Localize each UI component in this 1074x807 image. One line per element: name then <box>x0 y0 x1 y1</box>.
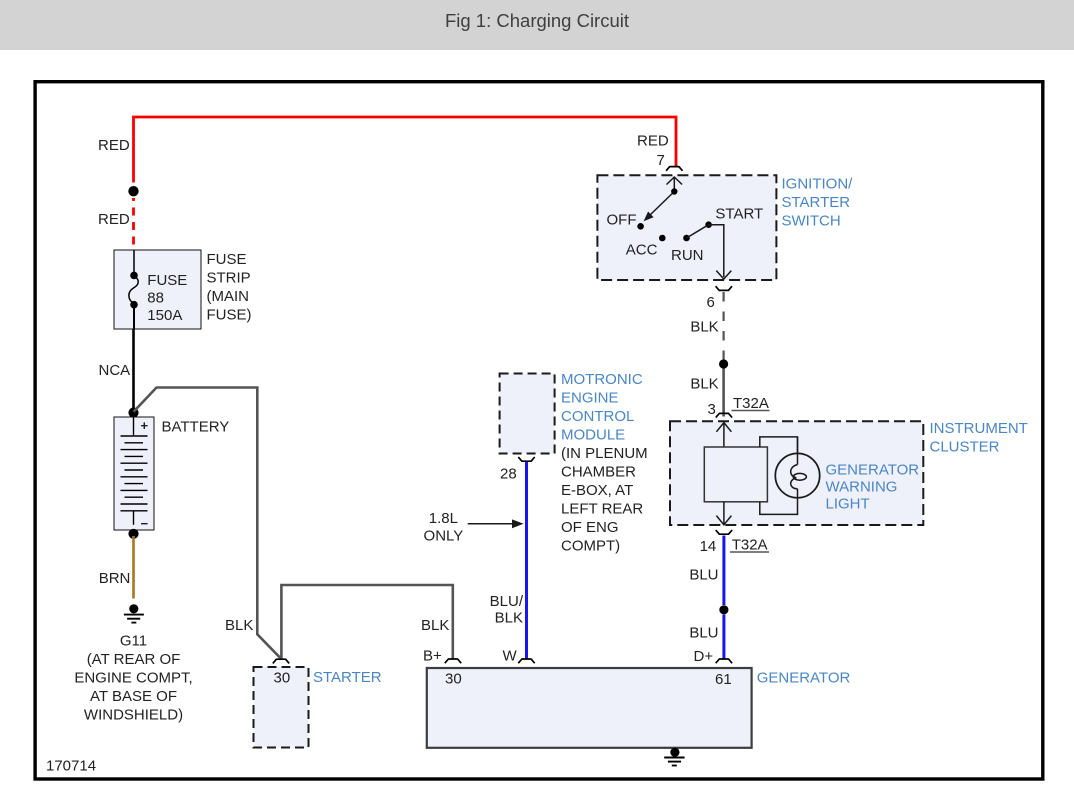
label IGNITION/STARTER SWITCH <box>782 176 854 230</box>
svg-text:G11: G11 <box>120 633 147 650</box>
svg-text:7: 7 <box>657 152 665 169</box>
svg-text:MODULE: MODULE <box>561 427 625 444</box>
fuse F88 box <box>114 250 201 329</box>
wire BLU/BLK: motronic to generator W <box>525 462 528 659</box>
svg-text:D+: D+ <box>694 648 714 665</box>
connector D+ arc <box>716 659 732 663</box>
svg-text:170714: 170714 <box>46 758 96 775</box>
ground G11 <box>124 604 144 622</box>
wire BLK dashed: ignition to splice <box>722 292 724 360</box>
svg-text:SWITCH: SWITCH <box>782 213 841 230</box>
svg-text:CHAMBER: CHAMBER <box>561 464 636 481</box>
svg-text:STARTER: STARTER <box>313 669 382 686</box>
contact OFF <box>637 223 644 230</box>
instrument cluster box <box>670 421 923 525</box>
svg-text:B+: B+ <box>423 648 442 665</box>
svg-text:ENGINE COMPT,: ENGINE COMPT, <box>74 670 192 687</box>
wire NCA: fuse to battery <box>132 329 135 408</box>
wire START to output arrow <box>709 225 732 279</box>
svg-text:BLU/: BLU/ <box>490 593 524 610</box>
svg-text:150A: 150A <box>147 307 182 324</box>
note arrow to BLU/BLK wire <box>468 519 524 528</box>
svg-text:BLK: BLK <box>690 376 718 393</box>
svg-text:W: W <box>503 648 518 665</box>
label FUSE STRIP (MAIN FUSE) <box>207 251 252 324</box>
svg-text:FUSE: FUSE <box>147 272 187 289</box>
connector 3 arc <box>716 413 732 417</box>
battery BT1 <box>114 417 154 531</box>
fuse F88 symbol <box>129 250 138 329</box>
svg-text:OFF: OFF <box>607 212 637 229</box>
svg-text:(AT REAR OF: (AT REAR OF <box>87 651 181 668</box>
lamp: generator warning light <box>775 437 819 498</box>
switch wiper arrow up <box>667 177 683 192</box>
regulator block U1 <box>704 447 767 502</box>
svg-text:BLK: BLK <box>421 617 449 634</box>
svg-text:NCA: NCA <box>99 362 131 379</box>
svg-text:CLUSTER: CLUSTER <box>930 439 1000 456</box>
svg-text:WINDSHIELD): WINDSHIELD) <box>84 707 183 724</box>
svg-text:+: + <box>141 418 149 433</box>
ignition/starter switch box <box>597 175 776 280</box>
svg-text:CONTROL: CONTROL <box>561 408 634 425</box>
node: BLK splice <box>719 359 728 368</box>
connector W arc <box>518 659 534 663</box>
svg-text:BRN: BRN <box>99 570 131 587</box>
svg-text:OF ENG: OF ENG <box>561 519 619 536</box>
svg-text:BLU: BLU <box>689 625 718 642</box>
svg-text:28: 28 <box>500 466 517 483</box>
svg-text:LIGHT: LIGHT <box>826 496 870 513</box>
svg-text:IGNITION/: IGNITION/ <box>782 176 854 193</box>
wire BRN: battery to ground <box>132 536 135 599</box>
wire BLU: splice to generator D+ <box>722 615 725 659</box>
svg-text:RED: RED <box>637 133 669 150</box>
svg-text:30: 30 <box>445 671 462 688</box>
svg-text:ONLY: ONLY <box>424 528 464 545</box>
svg-text:RED: RED <box>98 211 130 228</box>
connector 28 arc <box>518 457 534 461</box>
wire RUN to START <box>687 225 709 238</box>
svg-text:START: START <box>715 206 763 223</box>
svg-text:14: 14 <box>700 538 717 555</box>
generator box <box>427 668 752 748</box>
svg-text:BLU: BLU <box>689 567 718 584</box>
label GENERATOR WARNING LIGHT <box>826 462 920 513</box>
svg-text:MOTRONIC: MOTRONIC <box>561 371 643 388</box>
svg-text:BLK: BLK <box>225 617 253 634</box>
svg-text:GENERATOR: GENERATOR <box>757 670 851 687</box>
value label FUSE 88 150A <box>147 272 187 324</box>
wire BLU: cluster to splice <box>722 536 725 606</box>
svg-text:(IN PLENUM: (IN PLENUM <box>561 445 648 462</box>
svg-text:3: 3 <box>708 401 716 418</box>
label INSTRUMENT CLUSTER <box>930 420 1028 456</box>
svg-text:BATTERY: BATTERY <box>162 419 230 436</box>
svg-text:WARNING: WARNING <box>826 479 898 496</box>
svg-text:LEFT REAR: LEFT REAR <box>561 501 643 518</box>
svg-text:(MAIN: (MAIN <box>207 288 250 305</box>
svg-text:COMPT): COMPT) <box>561 538 620 555</box>
svg-text:T32A: T32A <box>733 395 769 412</box>
contact RUN <box>683 235 690 242</box>
svg-text:INSTRUMENT: INSTRUMENT <box>930 420 1028 437</box>
svg-text:FUSE: FUSE <box>207 251 247 268</box>
wire BLK: battery to starter <box>134 388 281 658</box>
wire RED dashed segment to fuse <box>132 198 135 252</box>
node: BLU splice <box>719 605 728 614</box>
connector 6 arc <box>716 286 732 290</box>
connector B+ arc <box>445 659 461 663</box>
node: battery negative junction <box>128 529 138 539</box>
connector 14 arc <box>716 530 732 534</box>
note 1.8L ONLY <box>424 510 464 545</box>
wire BLK solid: splice to instrument cluster <box>722 369 725 417</box>
connector 30 arc (starter) <box>273 659 289 663</box>
svg-text:RUN: RUN <box>671 247 704 264</box>
switch wiper to OFF <box>644 188 678 221</box>
svg-text:ACC: ACC <box>626 242 658 259</box>
motronic engine control module box <box>500 374 555 454</box>
svg-text:AT BASE OF: AT BASE OF <box>90 688 177 705</box>
svg-text:88: 88 <box>147 290 164 307</box>
label BLU/BLK <box>490 593 524 627</box>
svg-text:STRIP: STRIP <box>207 270 251 287</box>
title bar <box>0 0 1074 50</box>
ground (generator case) <box>664 748 684 766</box>
svg-text:RED: RED <box>98 137 130 154</box>
contact START <box>705 221 712 228</box>
svg-text:BLK: BLK <box>690 319 718 336</box>
svg-text:FUSE): FUSE) <box>207 307 252 324</box>
cluster output arrow down <box>716 502 731 525</box>
label G11 location <box>74 633 192 724</box>
wire: lamp branch <box>760 437 798 515</box>
svg-text:ENGINE: ENGINE <box>561 390 619 407</box>
starter box <box>254 667 309 748</box>
svg-text:STARTER: STARTER <box>782 194 851 211</box>
svg-text:Fig 1: Charging Circuit: Fig 1: Charging Circuit <box>445 10 629 31</box>
label T32A (bottom, underlined) <box>730 537 769 554</box>
svg-text:6: 6 <box>707 294 715 311</box>
connector 7 arc <box>666 167 682 171</box>
cluster input arrow up <box>716 423 731 447</box>
svg-text:GENERATOR: GENERATOR <box>826 462 920 479</box>
wire BLK: starter node to generator B+ <box>281 585 452 659</box>
label T32A (top, underlined) <box>732 395 770 412</box>
svg-text:BLK: BLK <box>495 610 523 627</box>
svg-text:30: 30 <box>274 670 291 687</box>
svg-text:61: 61 <box>715 671 732 688</box>
svg-text:E-BOX, AT: E-BOX, AT <box>561 482 633 499</box>
svg-text:−: − <box>141 516 149 531</box>
node: battery positive junction <box>128 408 138 418</box>
label MOTRONIC ENGINE CONTROL MODULE <box>561 371 648 555</box>
contact ACC <box>659 235 666 242</box>
wire RED: battery feed to ignition switch <box>134 117 677 183</box>
node: RED junction <box>128 186 138 196</box>
svg-text:T32A: T32A <box>732 537 768 554</box>
svg-text:1.8L: 1.8L <box>429 510 458 527</box>
